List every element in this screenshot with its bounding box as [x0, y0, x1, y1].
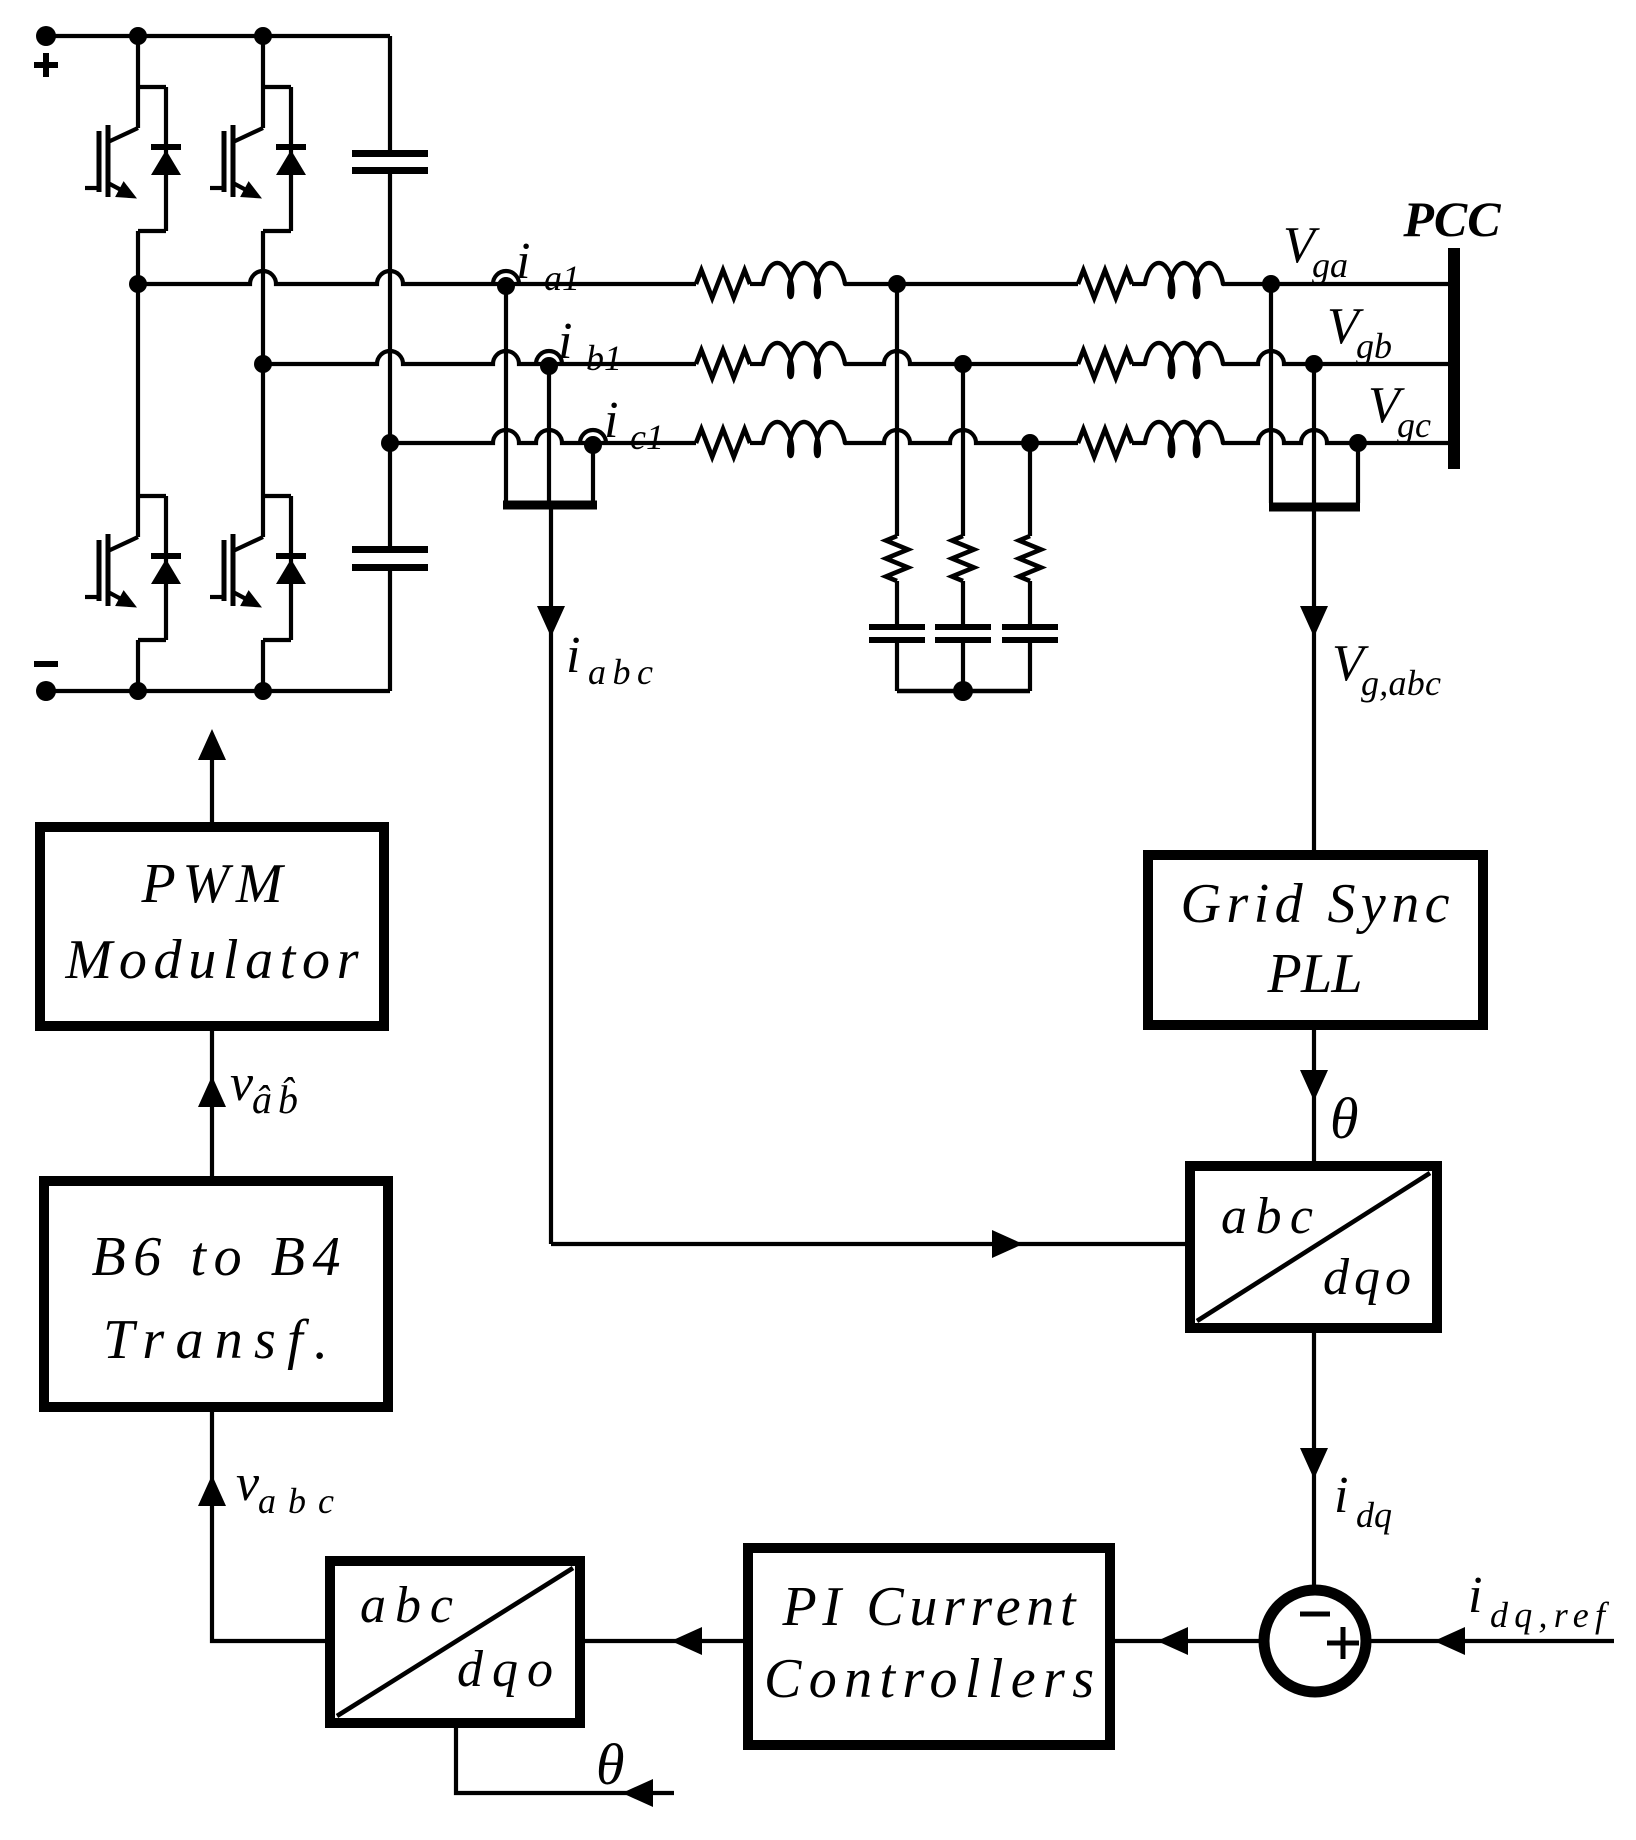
svg-text:dqo: dqo: [1323, 1249, 1411, 1306]
svg-text:PWM: PWM: [141, 853, 286, 915]
svg-text:dq: dq: [1356, 1495, 1392, 1535]
svg-text:v: v: [230, 1055, 254, 1112]
svg-text:abc: abc: [588, 652, 653, 692]
svg-text:PCC: PCC: [1402, 191, 1501, 247]
svg-text:Grid Sync: Grid Sync: [1181, 873, 1450, 935]
svg-text:i: i: [566, 627, 580, 684]
svg-text:i: i: [516, 233, 530, 290]
svg-text:a1: a1: [544, 258, 580, 298]
svg-text:ga: ga: [1312, 245, 1348, 285]
svg-text:gc: gc: [1397, 405, 1431, 445]
svg-text:Modulator: Modulator: [65, 929, 359, 991]
svg-text:b1: b1: [586, 338, 622, 378]
svg-text:dqo: dqo: [457, 1641, 553, 1698]
svg-text:PLL: PLL: [1267, 943, 1363, 1005]
svg-text:i: i: [1468, 1567, 1482, 1624]
svg-text:θ: θ: [1330, 1086, 1359, 1151]
svg-text:i: i: [1334, 1467, 1348, 1524]
svg-text:θ: θ: [596, 1732, 625, 1797]
svg-text:abc: abc: [258, 1481, 334, 1521]
svg-text:Controllers: Controllers: [764, 1648, 1094, 1710]
svg-text:v: v: [236, 1455, 260, 1512]
svg-text:abc: abc: [1221, 1188, 1313, 1245]
svg-text:abc: abc: [360, 1577, 453, 1634]
svg-text:c1: c1: [630, 417, 664, 457]
svg-text:i: i: [604, 392, 618, 449]
svg-text:PI Current: PI Current: [782, 1576, 1077, 1638]
svg-text:i: i: [558, 313, 572, 370]
svg-text:gb: gb: [1356, 326, 1392, 366]
svg-text:g,abc: g,abc: [1361, 663, 1441, 703]
